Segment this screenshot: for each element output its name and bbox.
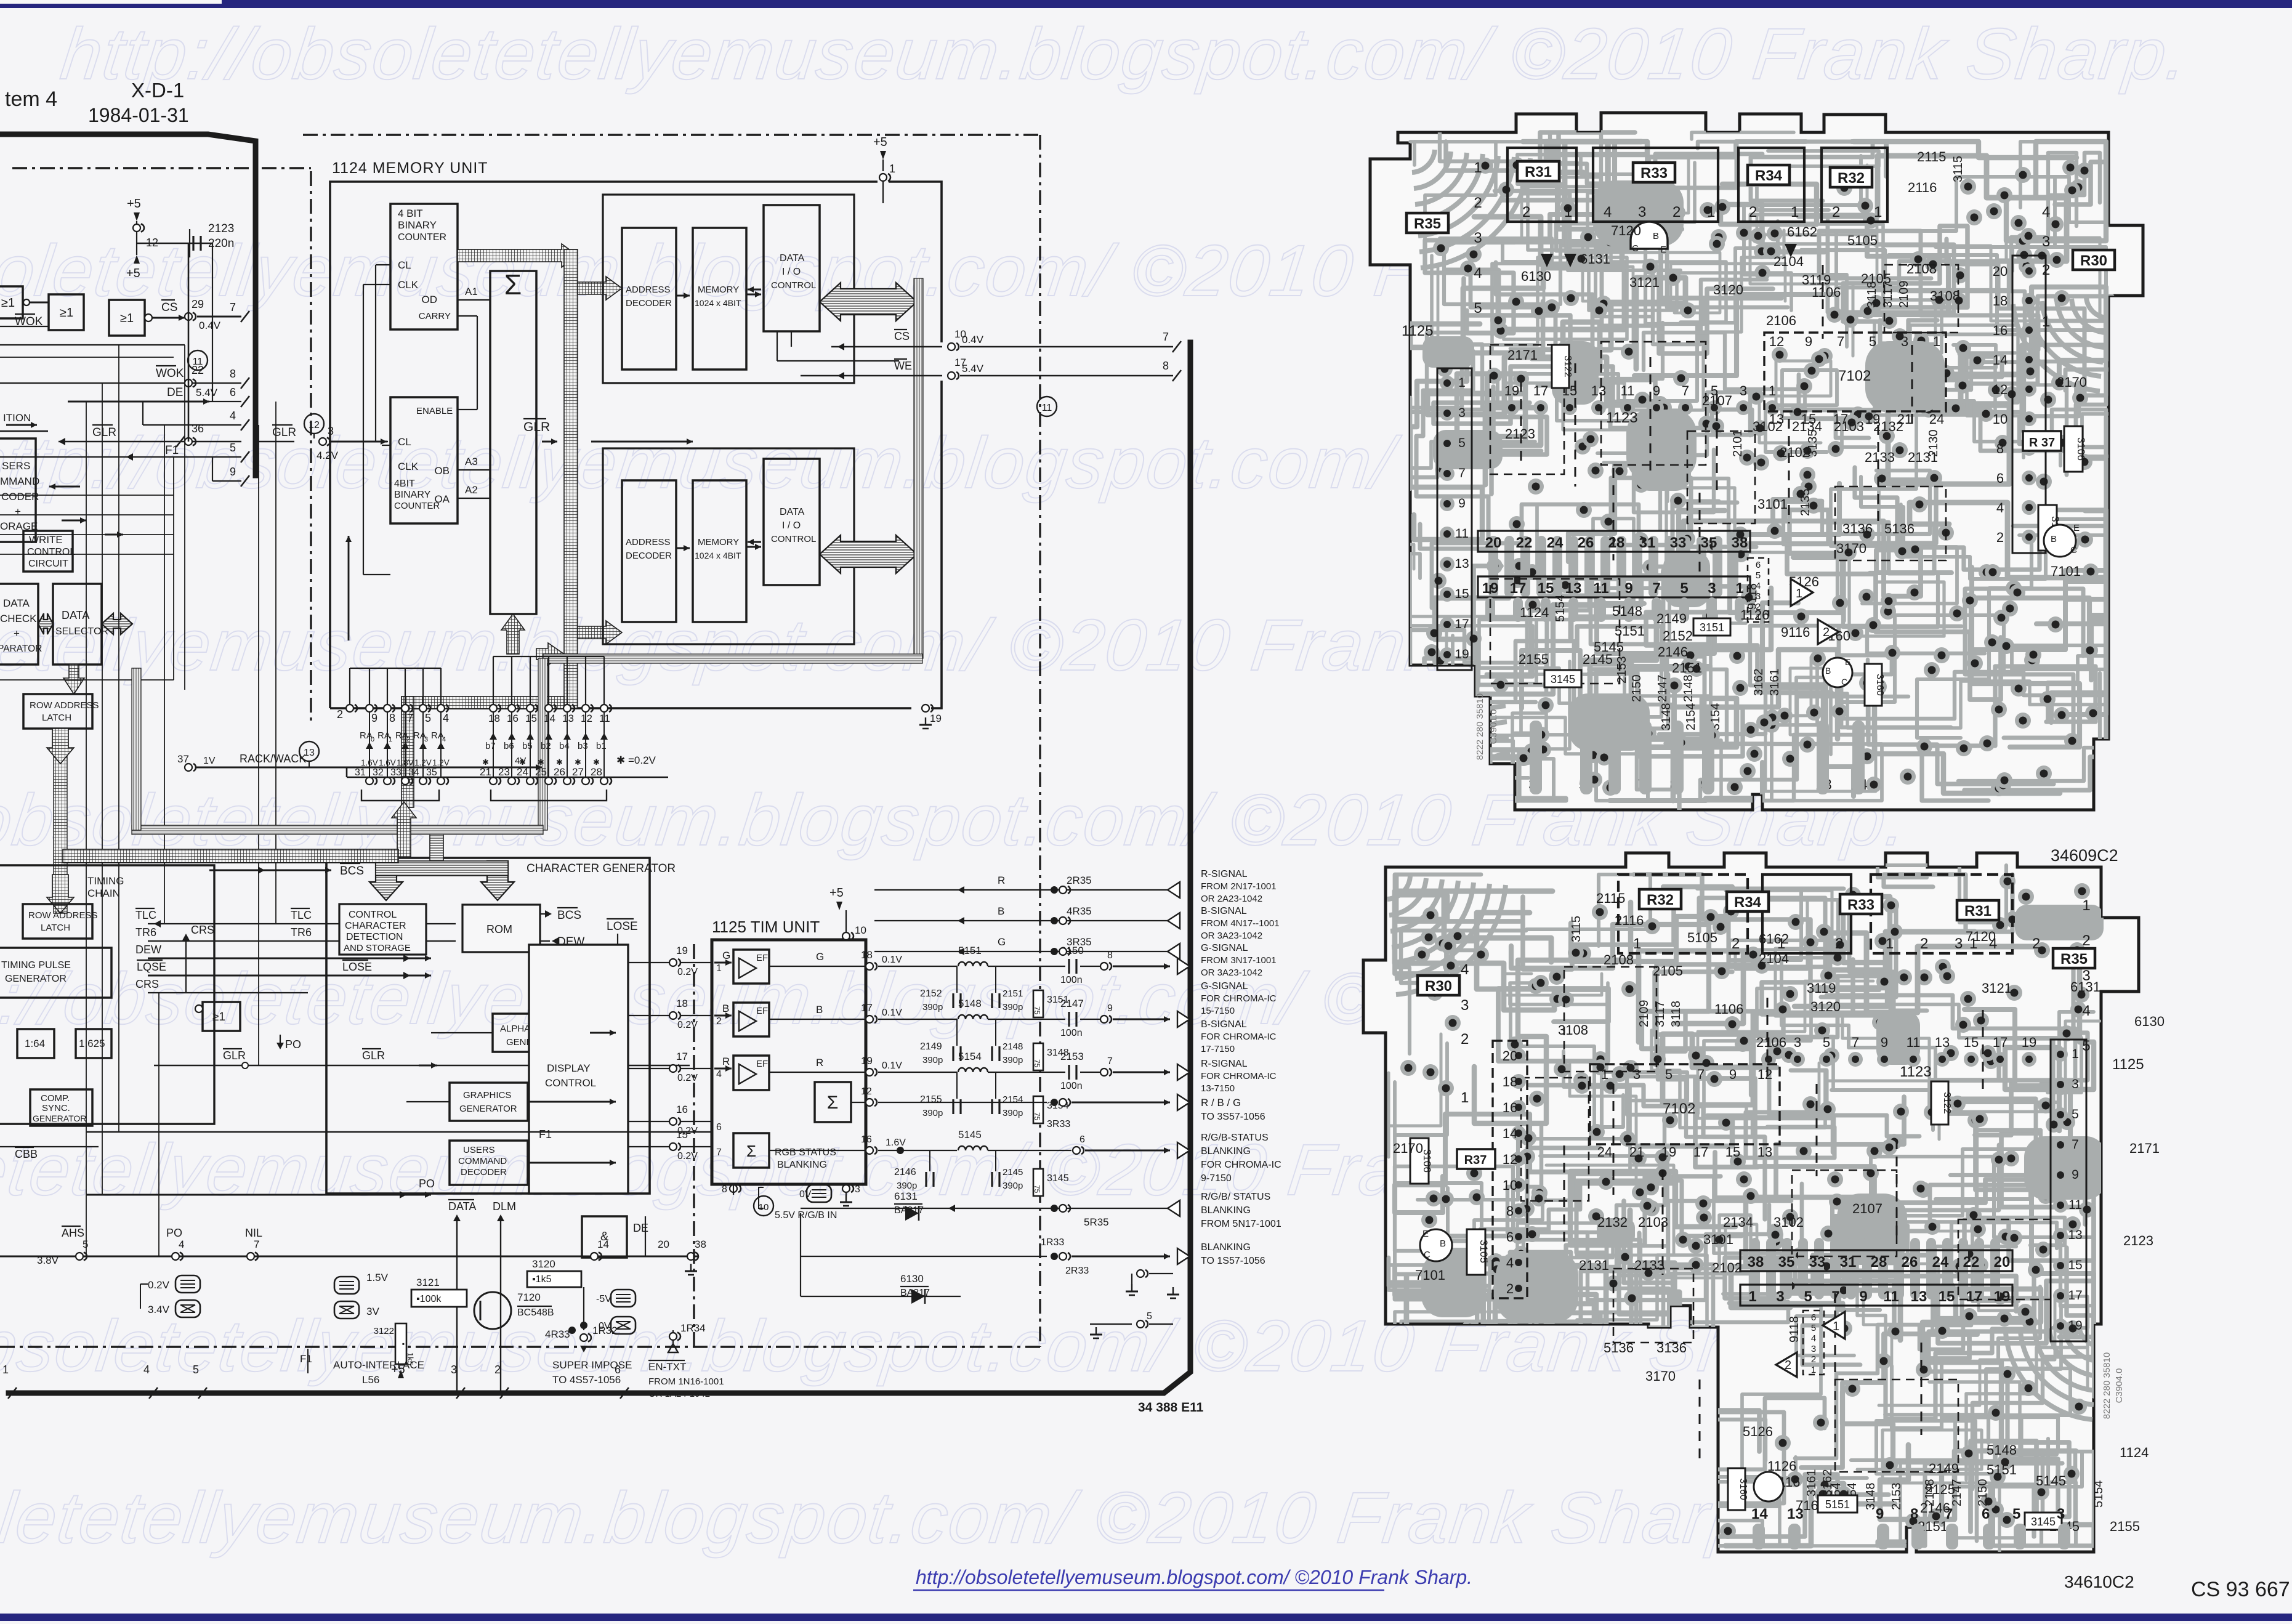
svg-text:2108: 2108	[1907, 261, 1937, 277]
node 19 gnd	[922, 705, 929, 712]
svg-text:6131: 6131	[1580, 251, 1610, 267]
svg-text:R33: R33	[1847, 897, 1874, 913]
mesh branch to address decoder 1	[578, 277, 622, 300]
svg-text:4: 4	[1996, 500, 2004, 515]
bottom rail line	[0, 1256, 699, 1258]
wire gate1-gate2	[23, 302, 49, 304]
svg-text:DECODER: DECODER	[461, 1167, 507, 1178]
grey band lower horizontal	[132, 825, 543, 834]
svg-text:3145: 3145	[1551, 673, 1575, 685]
svg-text:R30: R30	[2080, 252, 2107, 269]
svg-text:2146: 2146	[1658, 644, 1688, 660]
svg-text:13: 13	[1787, 1506, 1804, 1522]
svg-text:2155: 2155	[1519, 652, 1549, 667]
pcb2 ic 7102	[1590, 1064, 1780, 1144]
svg-text:3: 3	[1776, 1288, 1784, 1305]
svg-text:3122: 3122	[1942, 1092, 1952, 1114]
svg-text:4R33: 4R33	[545, 1328, 570, 1340]
svg-text:2147: 2147	[1060, 998, 1084, 1009]
svg-text:7120: 7120	[1966, 929, 1996, 944]
svg-text:CHARACTER GENERATOR: CHARACTER GENERATOR	[527, 862, 676, 875]
svg-text:13: 13	[1911, 1288, 1927, 1305]
svg-text:CONTROL: CONTROL	[27, 547, 75, 557]
svg-text:3V: 3V	[366, 1306, 379, 1317]
svg-text:3: 3	[1794, 1035, 1801, 1050]
pcb2 right pin column	[2051, 1040, 2086, 1341]
svg-text:R32: R32	[1838, 170, 1865, 187]
svg-text:2109: 2109	[1897, 281, 1911, 309]
svg-text:7102: 7102	[1838, 368, 1871, 384]
svg-text:CONTROL: CONTROL	[545, 1077, 596, 1089]
svg-text:7120: 7120	[1611, 223, 1641, 238]
svg-text:+5: +5	[126, 267, 140, 280]
pcb2 3122 box	[1931, 1081, 1948, 1125]
svg-text:15: 15	[1455, 587, 1469, 601]
svg-text:16: 16	[676, 1104, 688, 1115]
svg-text:AUTO-INTERLACE: AUTO-INTERLACE	[333, 1359, 424, 1371]
memory unit dash-dot frame right	[1039, 135, 1041, 1347]
svg-text:A2: A2	[465, 484, 478, 496]
svg-text:4: 4	[179, 1238, 184, 1250]
svg-text:20: 20	[1485, 535, 1502, 551]
heavy top border line	[0, 134, 256, 475]
svg-text:BC548B: BC548B	[517, 1307, 554, 1318]
pcb1 3160 box	[1865, 664, 1882, 706]
blanking out	[801, 1256, 1047, 1257]
pcb1 diodes 6131 6130	[1541, 254, 1553, 267]
svg-text:28: 28	[591, 766, 602, 778]
mesh branch sigma	[536, 643, 564, 665]
svg-text:FROM 2N17-1001: FROM 2N17-1001	[1201, 881, 1277, 892]
svg-text:2148: 2148	[1923, 1479, 1937, 1507]
svg-text:0.4V: 0.4V	[199, 320, 221, 331]
svg-text:3170: 3170	[1645, 1368, 1676, 1384]
sigma box 1	[815, 1082, 851, 1122]
heavy bottom border	[9, 342, 1190, 1393]
svg-text:DATA: DATA	[448, 1200, 476, 1213]
svg-text:24: 24	[1547, 535, 1564, 551]
svg-text:DISPLAY: DISPLAY	[547, 1062, 591, 1074]
svg-text:b5: b5	[522, 741, 533, 751]
svg-text:17: 17	[861, 1002, 873, 1014]
svg-text:DATA: DATA	[780, 253, 805, 264]
svg-text:16: 16	[507, 713, 519, 724]
svg-text:16: 16	[1503, 1100, 1517, 1115]
tim pin 8 bottom	[730, 1185, 737, 1192]
svg-text:3108: 3108	[1930, 288, 1960, 304]
svg-text:7120: 7120	[517, 1291, 541, 1303]
svg-text:34610C2: 34610C2	[2064, 1572, 2134, 1591]
svg-text:TR6: TR6	[291, 926, 312, 939]
svg-text:2153: 2153	[1615, 656, 1629, 684]
svg-text:12: 12	[1769, 334, 1784, 349]
svg-text:TIMING PULSE: TIMING PULSE	[1, 960, 71, 971]
svg-text:13: 13	[1565, 580, 1582, 597]
svg-text:0.1V: 0.1V	[882, 1008, 902, 1018]
pcb1 connector R33	[1593, 148, 1718, 222]
svg-text:TLC: TLC	[291, 909, 312, 921]
wire left inputs	[0, 302, 1, 304]
svg-text:1R32: 1R32	[592, 1325, 618, 1336]
svg-text:4: 4	[2042, 204, 2050, 220]
svg-text:4: 4	[1811, 1333, 1816, 1344]
po label	[280, 1035, 281, 1047]
svg-text:5136: 5136	[1884, 521, 1915, 536]
svg-text:1984-01-31: 1984-01-31	[88, 104, 189, 126]
svg-text:5.4V: 5.4V	[196, 387, 218, 398]
rom outputs bcs dew	[545, 910, 552, 918]
svg-text:BCS: BCS	[557, 909, 581, 922]
svg-text:5151: 5151	[1987, 1462, 2017, 1477]
svg-text:B: B	[1653, 231, 1659, 241]
svg-text:5: 5	[1823, 1035, 1830, 1050]
svg-text:17: 17	[1510, 580, 1527, 597]
svg-text:3: 3	[1756, 591, 1761, 602]
svg-text:6130: 6130	[900, 1273, 924, 1285]
rgb status blanking input	[801, 1208, 1173, 1209]
svg-text:ADDRESS: ADDRESS	[626, 285, 671, 295]
svg-text:9: 9	[1458, 496, 1466, 511]
svg-text:3: 3	[1708, 580, 1716, 597]
svg-text:2: 2	[1506, 1281, 1514, 1296]
svg-text:2148: 2148	[1003, 1041, 1023, 1052]
svg-text:+5: +5	[127, 197, 141, 211]
box data check comparator	[0, 584, 38, 665]
svg-text:13: 13	[2068, 1228, 2082, 1242]
svg-text:2132: 2132	[1597, 1214, 1628, 1230]
svg-text:35: 35	[426, 767, 437, 778]
svg-text:▪1k5: ▪1k5	[532, 1274, 552, 1285]
pcb1 opamp triangles	[1791, 579, 1813, 606]
svg-text:22: 22	[1963, 1254, 1980, 1271]
svg-text:DATA: DATA	[780, 507, 805, 517]
svg-text:9: 9	[1624, 580, 1632, 597]
svg-text:OD: OD	[422, 294, 438, 305]
pcb1 transistor 7101	[2044, 525, 2076, 557]
svg-text:5: 5	[1804, 1288, 1812, 1305]
caps 2149 2148 r 3148	[956, 1019, 958, 1046]
svg-text:5145: 5145	[958, 1129, 982, 1141]
svg-text:≥1: ≥1	[120, 312, 134, 325]
svg-text:75: 75	[1033, 1059, 1041, 1068]
svg-text:PO: PO	[419, 1178, 435, 1190]
grey band up to bracket2	[538, 658, 547, 830]
svg-text:2101: 2101	[1731, 430, 1745, 458]
svg-text:3: 3	[1633, 1067, 1640, 1082]
svg-text:2104: 2104	[1759, 951, 1789, 966]
svg-text:5151: 5151	[1615, 623, 1645, 639]
svg-text:5151: 5151	[1825, 1498, 1850, 1511]
box alphanumeric generator	[493, 1014, 590, 1052]
svg-text:12: 12	[1503, 1152, 1517, 1167]
pcb1 connector R31	[1507, 148, 1576, 222]
svg-text:3115: 3115	[1570, 916, 1583, 942]
svg-text:5: 5	[1474, 300, 1482, 317]
svg-text:ITION: ITION	[3, 412, 31, 424]
svg-text:7: 7	[254, 1238, 259, 1250]
svg-text:GENERATOR: GENERATOR	[459, 1104, 517, 1114]
ef amp 1	[733, 950, 769, 984]
svg-text:TO 1S57-1056: TO 1S57-1056	[1201, 1256, 1265, 1266]
svg-text:1: 1	[1461, 1089, 1469, 1106]
svg-text:2116: 2116	[1615, 913, 1644, 928]
svg-text:2: 2	[716, 1016, 722, 1027]
pcb1 connector R32	[1822, 148, 1887, 222]
svg-text:3118: 3118	[1669, 1001, 1683, 1027]
svg-text:2146: 2146	[894, 1167, 916, 1178]
svg-text:CRS: CRS	[191, 924, 214, 936]
svg-text:5148: 5148	[1987, 1442, 2017, 1458]
cap 2147	[1068, 1012, 1070, 1027]
svg-text:WOK: WOK	[156, 367, 184, 380]
caps 2155 2154 r 3154	[956, 1072, 958, 1099]
pcb2 3106 box	[1410, 1138, 1429, 1184]
svg-text:3102: 3102	[1773, 1214, 1804, 1230]
svg-text:12: 12	[861, 1086, 872, 1097]
svg-text:3122: 3122	[374, 1326, 394, 1336]
pcb2 3145 box	[2025, 1513, 2062, 1530]
svg-text:OR 2A23-1042: OR 2A23-1042	[1201, 894, 1262, 904]
or-gate U3	[109, 300, 145, 336]
svg-text:19: 19	[2022, 1035, 2036, 1050]
svg-text:1125: 1125	[2112, 1056, 2144, 1073]
svg-text:R: R	[998, 875, 1005, 886]
svg-text:5: 5	[425, 712, 431, 724]
memory frame pin stubs up	[349, 668, 350, 708]
svg-text:✱ =0.2V: ✱ =0.2V	[616, 754, 656, 766]
svg-text:2133: 2133	[1865, 450, 1895, 465]
svg-text:3.8V: 3.8V	[37, 1254, 59, 1266]
svg-text:2170: 2170	[1393, 1141, 1423, 1156]
svg-text:3: 3	[2057, 1506, 2065, 1522]
double arrow mem2 dio2	[746, 546, 761, 548]
svg-text:6: 6	[1982, 1506, 1990, 1522]
svg-text:G-SIGNAL: G-SIGNAL	[1201, 981, 1248, 992]
svg-text:9: 9	[371, 712, 377, 724]
svg-text:GENERATOR: GENERATOR	[5, 974, 67, 984]
arrow selector out	[102, 613, 132, 634]
wires cs we drop	[791, 347, 792, 357]
svg-text:1125: 1125	[1402, 323, 1434, 339]
pcb2 connector R32	[1618, 875, 1748, 953]
svg-text:24: 24	[1932, 1254, 1949, 1271]
character generator frame	[326, 858, 650, 1194]
svg-text:1: 1	[1748, 1288, 1756, 1305]
memory 2 box	[693, 480, 746, 622]
diode 6131	[800, 1213, 801, 1296]
svg-text:2102: 2102	[1712, 1260, 1742, 1275]
svg-text:0.1V: 0.1V	[882, 955, 902, 965]
svg-text:2149: 2149	[1656, 611, 1687, 626]
box 1:64	[17, 1029, 54, 1058]
cap 2150	[1068, 959, 1070, 974]
svg-text:390p: 390p	[1003, 1108, 1023, 1118]
svg-text:7: 7	[1837, 334, 1844, 349]
svg-text:DETECTION: DETECTION	[346, 932, 403, 942]
svg-text:3: 3	[2042, 233, 2050, 250]
svg-text:R / B / G: R / B / G	[1201, 1097, 1241, 1109]
box write control circuit	[23, 531, 73, 572]
svg-text:11: 11	[2068, 1198, 2082, 1212]
svg-text:1: 1	[389, 736, 392, 743]
node 10 circle	[754, 1196, 773, 1216]
svg-text:5148: 5148	[1612, 604, 1642, 619]
svg-text:17: 17	[1533, 383, 1548, 398]
svg-text:FOR CHROMA-IC: FOR CHROMA-IC	[1201, 993, 1277, 1004]
svg-text:5: 5	[2012, 1506, 2020, 1522]
svg-text:19: 19	[1455, 647, 1469, 661]
svg-text:5: 5	[2072, 1107, 2079, 1121]
svg-text:2150: 2150	[1976, 1479, 1990, 1507]
svg-text:FROM 4N17--1001: FROM 4N17--1001	[1201, 918, 1280, 929]
svg-text:5R35: 5R35	[1084, 1216, 1109, 1228]
svg-text:2106: 2106	[1756, 1035, 1786, 1050]
svg-text:3.4V: 3.4V	[148, 1304, 170, 1315]
svg-text:LATCH: LATCH	[42, 713, 71, 723]
svg-text:R 37: R 37	[2029, 436, 2055, 450]
bottom node 5	[1137, 1320, 1144, 1328]
svg-text:1: 1	[1735, 580, 1743, 597]
svg-text:1123: 1123	[1606, 410, 1638, 426]
svg-text:3R33: 3R33	[1047, 1119, 1070, 1129]
node 11 circle	[188, 350, 208, 370]
svg-text:CL: CL	[398, 259, 411, 271]
svg-text:TR6: TR6	[135, 926, 156, 939]
svg-text:20: 20	[1994, 1254, 2011, 1271]
svg-text:7: 7	[1163, 331, 1169, 343]
svg-text:DE: DE	[167, 386, 183, 399]
svg-text:5.5V R/G/B IN: 5.5V R/G/B IN	[775, 1210, 837, 1221]
svg-text:1V: 1V	[203, 756, 216, 766]
svg-text:R35: R35	[1414, 216, 1441, 232]
svg-text:4 BIT: 4 BIT	[398, 208, 423, 219]
svg-text:CONTROL: CONTROL	[771, 534, 816, 544]
svg-text:3117: 3117	[1653, 1001, 1667, 1027]
svg-text:6130: 6130	[2134, 1014, 2165, 1029]
svg-text:100n: 100n	[1060, 1081, 1083, 1091]
stripe arrow dio2 to band	[820, 535, 917, 573]
svg-text:9-7150: 9-7150	[1201, 1173, 1232, 1184]
svg-text:6: 6	[1506, 1229, 1514, 1245]
row line 1262	[347, 777, 668, 778]
svg-text:13: 13	[562, 713, 574, 724]
svg-text:3121: 3121	[1982, 980, 2012, 996]
svg-text:TLC: TLC	[135, 909, 156, 921]
stripe arrow dio1 to band	[820, 283, 917, 321]
svg-text:6: 6	[1079, 1134, 1085, 1145]
svg-text:8: 8	[389, 712, 395, 724]
svg-text:6130: 6130	[1521, 269, 1551, 284]
svg-text:18: 18	[1503, 1074, 1517, 1089]
svg-text:11: 11	[1907, 1035, 1921, 1050]
svg-text:17: 17	[2068, 1288, 2082, 1303]
svg-text:17: 17	[1993, 1035, 2008, 1050]
coil 5148	[958, 1015, 988, 1019]
svg-text:E: E	[2073, 523, 2080, 533]
svg-text:3108: 3108	[1558, 1022, 1588, 1038]
svg-text:1.8V: 1.8V	[397, 758, 414, 767]
svg-text:2149: 2149	[1929, 1461, 1959, 1476]
svg-text:20: 20	[658, 1238, 669, 1250]
svg-text:26: 26	[1902, 1254, 1918, 1271]
pcb1 transistor 7160	[1823, 658, 1852, 687]
svg-text:CONTROL: CONTROL	[771, 280, 816, 291]
svg-text:9118: 9118	[1788, 1316, 1801, 1343]
tim ground 3	[845, 1184, 847, 1195]
svg-text:38: 38	[695, 1238, 706, 1250]
pcb2 connector R35	[2053, 948, 2095, 968]
svg-text:FOR CHROMA-IC: FOR CHROMA-IC	[1201, 1160, 1281, 1170]
mesh bus counter1 to trunk	[458, 244, 578, 267]
tim unit frame	[712, 940, 866, 1184]
svg-text:✱: ✱	[593, 757, 600, 767]
memory 1 box	[693, 228, 746, 370]
svg-text:BLANKING: BLANKING	[1201, 1146, 1251, 1157]
svg-text:G: G	[722, 950, 730, 961]
svg-text:DE: DE	[633, 1222, 648, 1234]
pcb1 3105 box	[2038, 505, 2057, 551]
svg-text:CL: CL	[398, 436, 411, 448]
svg-text:9: 9	[1107, 1003, 1113, 1014]
svg-text:3119: 3119	[1802, 272, 1831, 288]
svg-text:2: 2	[406, 736, 410, 743]
box data selector	[53, 584, 102, 665]
svg-text:R37: R37	[1464, 1153, 1487, 1167]
svg-text:COMP.: COMP.	[41, 1093, 70, 1104]
svg-text:1:64: 1:64	[25, 1038, 45, 1049]
svg-text:R33: R33	[1640, 165, 1668, 182]
svg-text:1: 1	[1564, 204, 1572, 220]
svg-text:2104: 2104	[1773, 254, 1804, 269]
box control character detection and storage	[339, 904, 426, 955]
svg-text:9: 9	[1653, 383, 1660, 398]
svg-text:LOSE: LOSE	[342, 961, 372, 973]
svg-text:CLK: CLK	[398, 461, 419, 472]
svg-text:b4: b4	[559, 741, 570, 751]
svg-text:ROW ADDRESS: ROW ADDRESS	[28, 910, 98, 921]
svg-text:1: 1	[1756, 612, 1761, 623]
bcs entry arrow	[209, 870, 331, 871]
svg-text:CS 93 667: CS 93 667	[2191, 1578, 2290, 1601]
svg-text:18: 18	[676, 998, 688, 1009]
grey band bottom horizontal	[543, 654, 922, 663]
svg-text:3136: 3136	[1656, 1340, 1687, 1355]
svg-text:2155: 2155	[920, 1094, 942, 1105]
pcb1 3122 box	[1552, 345, 1569, 388]
svg-text:2106: 2106	[1766, 313, 1796, 328]
svg-text:5: 5	[1811, 1323, 1816, 1333]
sigma box 2	[733, 1133, 769, 1168]
svg-text:3: 3	[1458, 406, 1466, 420]
svg-text:3: 3	[1461, 997, 1469, 1014]
svg-text:7: 7	[716, 1147, 722, 1158]
svg-text:2133: 2133	[1634, 1258, 1665, 1273]
svg-text:1: 1	[889, 163, 895, 175]
svg-text:3122: 3122	[1562, 355, 1573, 378]
svg-text:Σ: Σ	[504, 269, 522, 301]
svg-text:2R35: 2R35	[1067, 875, 1092, 886]
svg-text:RACK/WACK: RACK/WACK	[240, 753, 306, 765]
svg-text:1R33: 1R33	[1041, 1237, 1064, 1248]
svg-text:8: 8	[1163, 360, 1169, 372]
svg-text:DECODER: DECODER	[626, 298, 672, 309]
data io control 2 box	[764, 459, 820, 585]
svg-text:4: 4	[230, 410, 236, 422]
svg-text:2: 2	[1811, 1354, 1816, 1365]
svg-text:A3: A3	[465, 456, 478, 467]
svg-text:COUNTER: COUNTER	[394, 501, 440, 511]
svg-text:2: 2	[2032, 935, 2040, 952]
